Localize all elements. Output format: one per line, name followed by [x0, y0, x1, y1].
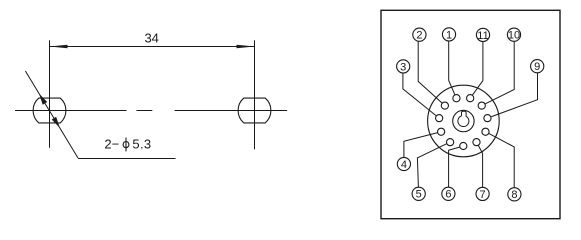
balloon circle for pin number 11	[476, 28, 489, 41]
left mounting hole (circle with flats)	[33, 98, 66, 123]
wire: leader from balloon 7 to pin 7	[478, 146, 482, 188]
wire: horizontal centerline segment right	[175, 110, 288, 112]
svg-text:3: 3	[400, 61, 406, 73]
balloon circle for pin number 2	[413, 28, 426, 41]
pin 2 circle	[441, 102, 448, 109]
wire: left hole vertical centerline / extension line	[49, 40, 51, 147]
svg-text:5.3: 5.3	[132, 137, 151, 152]
wire: leader from balloon 2 to pin 2	[418, 41, 442, 103]
arrowhead left of dimension 34	[50, 45, 68, 48]
pin 6 circle	[460, 142, 467, 149]
balloon circle for pin number 8	[508, 188, 521, 201]
svg-text:11: 11	[477, 30, 488, 42]
wire: horizontal centerline short dash	[136, 110, 152, 112]
svg-text:4: 4	[401, 159, 407, 171]
wire: leader from balloon 3 to pin 3	[403, 73, 436, 116]
svg-text:2−: 2−	[104, 137, 119, 152]
border rectangle of socket diagram	[381, 10, 560, 218]
balloon circle for pin number 9	[531, 60, 544, 73]
center keyway (inner circle with key notch)	[458, 111, 469, 126]
wire: leader from balloon 6 to pin 6	[449, 147, 460, 187]
balloon circle for pin number 1	[442, 28, 455, 41]
arrowhead upper on diameter line	[39, 94, 47, 105]
arrowhead lower on diameter line	[52, 117, 60, 128]
wire: leader from balloon 9 to pin 9	[491, 73, 537, 117]
balloon circle for pin number 4	[397, 157, 410, 170]
svg-text:10: 10	[508, 30, 520, 42]
wire: horizontal centerline segment left	[15, 110, 127, 112]
svg-text:6: 6	[445, 189, 451, 201]
balloon circle for pin number 3	[397, 60, 410, 73]
svg-text:9: 9	[534, 61, 540, 73]
pin 10 circle	[478, 102, 485, 109]
svg-text:34: 34	[144, 30, 158, 45]
right mounting hole (circle with flats)	[238, 98, 271, 123]
wire: leader from balloon 8 to pin 8	[489, 134, 514, 188]
pin 9 circle	[484, 115, 491, 122]
wire: right hole vertical centerline / extension line	[254, 40, 256, 149]
pin 5 circle	[447, 139, 454, 146]
svg-text:7: 7	[480, 189, 486, 201]
wire: leader from balloon 1 to pin 1	[449, 41, 455, 94]
pin 4 circle	[438, 128, 445, 135]
svg-text:8: 8	[511, 189, 517, 201]
pin 11 circle	[467, 95, 474, 102]
pin 7 circle	[473, 139, 480, 146]
balloon circle for pin number 10	[507, 28, 520, 41]
arrowhead right of dimension 34	[237, 45, 255, 48]
pin 8 circle	[482, 128, 489, 135]
pin 3 circle	[436, 115, 443, 122]
svg-text:2: 2	[416, 30, 422, 42]
balloon circle for pin number 7	[476, 187, 489, 200]
balloon circle for pin number 5	[412, 187, 425, 200]
wire: leader from balloon 10 to pin 10	[485, 41, 514, 103]
wire: leader horizontal line	[78, 158, 176, 160]
svg-text:5: 5	[416, 189, 422, 201]
socket body outer circle	[428, 85, 500, 157]
wire: dimension line 34	[50, 46, 255, 48]
svg-text:1: 1	[446, 29, 452, 41]
wire: leader from balloon 4 to pin 4	[404, 133, 437, 158]
phi diameter symbol (drawn)	[123, 142, 129, 148]
wire: leader from balloon 11 to pin 11	[473, 42, 483, 95]
center boss outer circle	[453, 110, 474, 131]
balloon circle for pin number 6	[442, 187, 455, 200]
pin 1 circle	[453, 95, 460, 102]
wire: diagonal diameter line through left hole	[25, 71, 78, 158]
wire: leader from balloon 5 to pin 5	[417, 144, 446, 187]
